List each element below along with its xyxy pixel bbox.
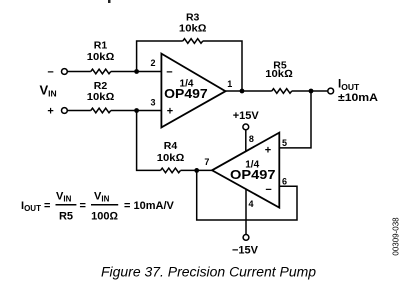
svg-text:10kΩ: 10kΩ (157, 152, 185, 164)
svg-text:−: − (166, 67, 172, 79)
svg-text:1: 1 (227, 79, 232, 89)
wire U1 output (226, 90, 328, 92)
terminal plus input (62, 108, 68, 114)
svg-text:R4: R4 (164, 140, 178, 152)
terminal IOUT (328, 88, 334, 94)
svg-text:00309-038: 00309-038 (392, 217, 401, 256)
op-amp U2 (212, 133, 279, 208)
svg-text:R1: R1 (94, 39, 108, 51)
svg-text:+: + (167, 106, 173, 118)
resistor R3 (183, 39, 203, 44)
terminal minus input (62, 69, 68, 75)
resistor R2 (91, 108, 111, 113)
wire pin8 supply (245, 130, 247, 152)
wire R5 node down to pin5 (279, 91, 311, 148)
svg-text:= 10mA/V: = 10mA/V (124, 200, 174, 212)
wire feedback top from node to R3 (137, 41, 242, 91)
svg-text:Figure 37. Precision Current P: Figure 37. Precision Current Pump (101, 264, 317, 279)
power +15V terminal (243, 124, 249, 130)
node R5 output junction (309, 89, 314, 94)
svg-text:10kΩ: 10kΩ (87, 91, 115, 103)
op-amp U1 (161, 54, 225, 128)
resistor R5 (272, 89, 292, 94)
svg-text:8: 8 (249, 134, 254, 144)
formula IOUT equation (21, 191, 174, 223)
svg-text:OP497: OP497 (164, 87, 208, 101)
svg-text:10kΩ: 10kΩ (179, 22, 207, 34)
svg-text:10kΩ: 10kΩ (87, 51, 115, 63)
resistor R1 (91, 69, 111, 74)
svg-text:4: 4 (248, 199, 253, 209)
svg-text:+: + (47, 106, 53, 118)
svg-text:2: 2 (150, 58, 155, 68)
svg-text:OP497: OP497 (230, 168, 276, 182)
svg-text:R5: R5 (59, 211, 73, 223)
node pin3 junction (134, 108, 139, 113)
svg-text:6: 6 (282, 176, 287, 186)
wire U2 feedback pin6 loop (197, 170, 297, 220)
svg-text:−: − (265, 184, 271, 196)
svg-text:=: = (79, 200, 85, 212)
wire R4 path from pin3 node down and right to U2 output (137, 111, 212, 171)
resistor R4 (161, 168, 181, 173)
svg-text:−15V: −15V (232, 245, 259, 257)
node pin7 junction (194, 168, 199, 173)
wire pin2 input line (67, 71, 161, 73)
svg-text:±10mA: ±10mA (338, 92, 378, 104)
stray mark top edge (108, 0, 111, 3)
wire pin4 supply (245, 189, 247, 234)
svg-text:100Ω: 100Ω (91, 211, 118, 223)
power -15V terminal (243, 235, 249, 241)
svg-text:3: 3 (150, 97, 155, 107)
node output junction (240, 89, 245, 94)
svg-text:+15V: +15V (233, 110, 260, 122)
wire pin3 input line (67, 110, 161, 112)
svg-text:10kΩ: 10kΩ (265, 68, 293, 80)
svg-text:−: − (47, 67, 53, 79)
node pin2 junction (134, 69, 139, 74)
svg-text:5: 5 (282, 138, 287, 148)
svg-text:+: + (265, 145, 271, 157)
svg-text:7: 7 (204, 157, 209, 167)
